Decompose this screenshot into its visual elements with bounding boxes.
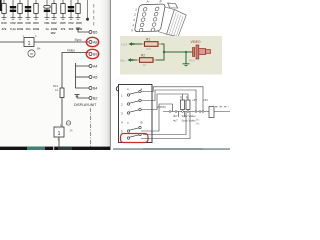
svg-text:VIDEO: VIDEO [191, 40, 201, 44]
svg-text:470: 470 [146, 47, 151, 51]
svg-text:05a: 05a [120, 59, 125, 63]
svg-text:R22: R22 [51, 21, 57, 25]
svg-text:1: 1 [58, 131, 61, 137]
svg-text:+5V: +5V [203, 98, 208, 102]
svg-text:R20: R20 [33, 21, 39, 25]
svg-text:R2: R2 [141, 54, 145, 58]
svg-text:0,1u: 0,1u [10, 27, 16, 31]
svg-text:A4: A4 [93, 64, 97, 68]
svg-text:R: R [180, 96, 182, 100]
svg-text:C81: C81 [44, 21, 50, 25]
svg-text:47k: 47k [61, 27, 66, 31]
svg-text:B4: B4 [93, 86, 97, 90]
svg-text:B5: B5 [93, 30, 97, 34]
svg-text:Sync: Sync [74, 38, 81, 42]
svg-text:R: R [186, 96, 188, 100]
svg-text:18V: 18V [50, 31, 55, 35]
svg-text:10n: 10n [26, 27, 31, 31]
svg-text:4u7: 4u7 [173, 119, 178, 123]
svg-text:12: 12 [55, 88, 59, 92]
svg-text:m: m [30, 52, 33, 56]
svg-text:2 (PW): 2 (PW) [157, 105, 166, 109]
svg-text:R1: R1 [146, 38, 150, 42]
svg-text:1u: 1u [45, 27, 49, 31]
svg-text:R26: R26 [17, 21, 23, 25]
svg-text:B2: B2 [93, 96, 97, 100]
svg-text:R26: R26 [76, 21, 82, 25]
svg-text:1K: 1K [143, 63, 147, 67]
svg-text:C52: C52 [10, 21, 16, 25]
svg-text:Sync Video: Sync Video [182, 119, 197, 123]
svg-text:C52: C52 [68, 21, 74, 25]
svg-text:Video: Video [67, 49, 75, 53]
svg-text:100k: 100k [17, 27, 24, 31]
svg-text:A8: A8 [93, 40, 97, 44]
svg-text:B9: B9 [93, 52, 97, 56]
svg-text:390: 390 [69, 27, 74, 31]
svg-text:B4: B4 [37, 47, 41, 51]
svg-text:RCA: RCA [189, 58, 195, 62]
svg-text:+5V: +5V [192, 98, 197, 102]
svg-text:A5: A5 [93, 75, 97, 79]
svg-text:B: B [141, 120, 143, 124]
svg-text:R10: R10 [1, 21, 7, 25]
svg-text:1: 1 [28, 41, 31, 47]
svg-text:R25: R25 [60, 21, 66, 25]
svg-text:DISPLAYUNIT: DISPLAYUNIT [74, 103, 97, 107]
svg-text:m: m [67, 122, 69, 125]
svg-text:. - . -- . - .. - .: . - . -- . - .. - . [114, 78, 128, 81]
svg-text:47k: 47k [2, 27, 7, 31]
svg-text:C28: C28 [25, 21, 31, 25]
svg-text:VGA: VGA [121, 43, 127, 47]
svg-text:100k: 100k [33, 27, 40, 31]
